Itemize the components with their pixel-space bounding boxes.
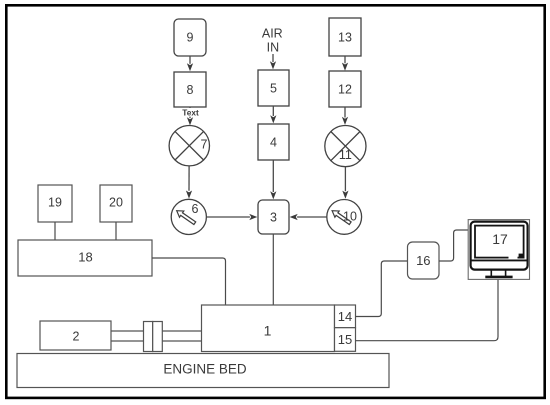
svg-text:14: 14 — [338, 309, 352, 324]
svg-text:AIR: AIR — [262, 27, 283, 41]
wire 5 to 4 — [270, 106, 276, 123]
wire 7 to 6 — [186, 166, 192, 199]
svg-text:9: 9 — [187, 31, 194, 45]
svg-text:ENGINE BED: ENGINE BED — [163, 362, 247, 377]
svg-text:15: 15 — [338, 332, 352, 347]
valve circle 11 — [325, 126, 366, 167]
svg-text:16: 16 — [416, 253, 430, 268]
box 5 — [258, 70, 289, 106]
box 14 — [335, 305, 356, 328]
svg-text:3: 3 — [270, 211, 277, 225]
box 9 — [174, 19, 206, 56]
box 18 — [18, 240, 152, 276]
svg-text:5: 5 — [270, 82, 277, 96]
box 12 — [329, 71, 361, 107]
box 20 — [100, 185, 132, 222]
box 19 — [38, 185, 72, 222]
wire AIR IN to 5 — [270, 54, 276, 69]
svg-text:4: 4 — [270, 136, 277, 150]
wire 18 to 1 — [152, 258, 226, 305]
wire 12 to 11 — [342, 107, 348, 125]
AIR IN label — [262, 27, 283, 55]
shaft lines 2 to coupling — [111, 331, 144, 341]
wire 14 to 16 — [356, 261, 408, 317]
wire 20 to 18 — [115, 222, 117, 240]
svg-text:Text: Text — [182, 107, 199, 117]
arrow 10 to 3 — [290, 214, 327, 220]
arrow 6 to 3 — [207, 214, 258, 220]
svg-text:7: 7 — [201, 138, 208, 152]
wire 19 to 18 — [54, 222, 56, 240]
wire 3 to 1 — [272, 234, 274, 305]
box 3 — [258, 200, 289, 234]
box 15 — [335, 328, 356, 352]
engine bed — [17, 354, 389, 388]
svg-text:12: 12 — [338, 83, 352, 97]
box 8 — [174, 72, 206, 107]
wire 11 to 10 — [342, 167, 348, 199]
box 4 — [258, 124, 289, 160]
valve circle 7 — [169, 126, 209, 166]
svg-text:18: 18 — [78, 249, 92, 264]
svg-text:6: 6 — [192, 202, 199, 216]
svg-text:17: 17 — [492, 231, 508, 247]
svg-text:19: 19 — [48, 196, 62, 210]
wire 8 to 7 with Text label — [180, 107, 201, 125]
box 2 — [40, 321, 111, 350]
wire 16 to 17 — [439, 230, 468, 261]
box 1 — [202, 305, 335, 352]
wire 15 to 17 — [356, 280, 499, 341]
svg-text:10: 10 — [343, 209, 357, 223]
coupling — [144, 322, 163, 352]
wire 9 to 8 — [187, 56, 193, 71]
monitor 17 — [468, 220, 529, 280]
wire 13 to 12 — [342, 56, 348, 71]
shaft lines coupling to 1 — [162, 331, 201, 341]
svg-text:20: 20 — [109, 196, 123, 210]
gauge circle 6 — [171, 199, 206, 234]
box 13 — [329, 18, 361, 56]
gauge circle 10 — [327, 200, 362, 235]
box 16 — [408, 242, 440, 279]
svg-text:8: 8 — [187, 83, 194, 97]
svg-text:1: 1 — [264, 323, 272, 339]
svg-text:11: 11 — [339, 148, 352, 162]
wire 4 to 3 — [270, 160, 276, 199]
svg-text:IN: IN — [267, 41, 280, 55]
svg-text:2: 2 — [73, 330, 80, 344]
svg-text:13: 13 — [338, 31, 352, 45]
